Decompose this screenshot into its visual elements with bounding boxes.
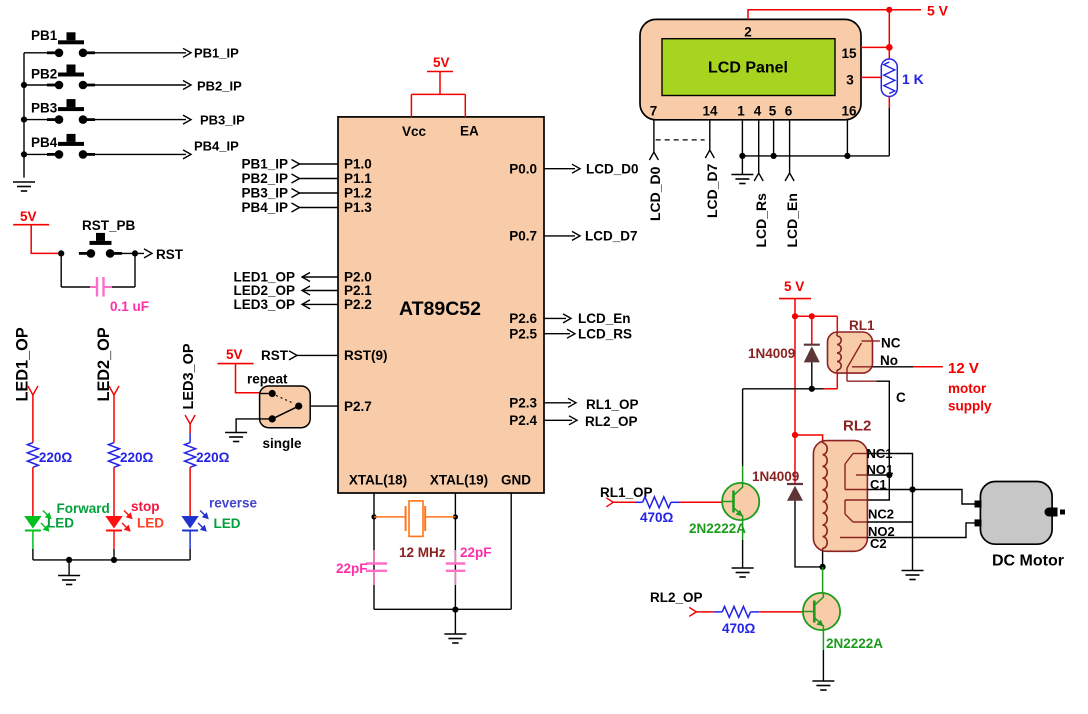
wire resistor to LED2 xyxy=(113,467,115,516)
connector arrow LED3_OP xyxy=(185,415,195,424)
wire pin3 to pot xyxy=(861,76,881,78)
svg-text:repeat: repeat xyxy=(247,372,288,387)
capacitor C_RST 0.1uF xyxy=(60,253,62,287)
node PB1_IP (top-left) xyxy=(183,48,191,57)
svg-text:LCD_RS: LCD_RS xyxy=(578,327,632,342)
wire to RST node xyxy=(132,250,138,256)
resistor R1 220 xyxy=(27,443,38,468)
svg-text:C2: C2 xyxy=(870,536,887,551)
capacitor C2 22pF xyxy=(446,562,466,564)
wire LED common xyxy=(33,559,190,561)
svg-text:5 V: 5 V xyxy=(784,279,804,294)
svg-text:P2.5: P2.5 xyxy=(509,326,537,341)
push button RST_PB xyxy=(58,250,64,256)
wire 5V rail to pin15 and 1K xyxy=(888,10,890,60)
svg-text:P2.7: P2.7 xyxy=(344,399,372,414)
wire pot bottom to gnd bus xyxy=(888,97,890,109)
node RST xyxy=(144,249,152,258)
node PB4_IP (top-left) xyxy=(183,150,191,159)
svg-text:P0.7: P0.7 xyxy=(509,229,537,244)
node PB3_IP (top-left) xyxy=(183,115,191,124)
svg-text:LCD_D7: LCD_D7 xyxy=(585,229,638,244)
wire resistor to LED3 xyxy=(189,467,191,516)
ground - LEDs xyxy=(68,560,70,576)
svg-text:PB1_IP: PB1_IP xyxy=(194,46,239,61)
wire NC2 xyxy=(867,521,912,523)
connector arrow LED2_OP xyxy=(109,386,119,395)
svg-text:2N2222A: 2N2222A xyxy=(689,521,746,536)
svg-text:5: 5 xyxy=(769,104,777,119)
wire P0.0 to LCD_D0 xyxy=(544,168,575,170)
svg-text:LED2_OP: LED2_OP xyxy=(95,327,113,401)
svg-text:Forward: Forward xyxy=(57,501,110,516)
wire LCD pin1 to ground xyxy=(741,120,743,156)
wire NO2 to motor xyxy=(867,523,978,538)
connector arrow LED1_OP xyxy=(28,386,38,395)
capacitor C1 22pF xyxy=(366,562,387,564)
svg-text:2N2222A: 2N2222A xyxy=(826,636,883,651)
relay RL1 xyxy=(828,332,873,373)
svg-text:5V: 5V xyxy=(226,347,243,362)
ground - Q2 xyxy=(812,680,834,682)
svg-text:Vcc: Vcc xyxy=(402,124,427,139)
svg-text:P1.3: P1.3 xyxy=(344,200,372,215)
svg-text:P0.0: P0.0 xyxy=(509,161,537,176)
svg-text:2: 2 xyxy=(744,25,752,40)
wire crystal ground bus xyxy=(374,608,511,610)
resistor R3 220 xyxy=(185,443,196,468)
svg-text:1N4009: 1N4009 xyxy=(748,346,795,361)
wire RL1 coil bottom xyxy=(836,373,838,389)
svg-text:P1.1: P1.1 xyxy=(344,171,372,186)
wire LCD pin4 xyxy=(758,120,760,173)
svg-text:P2.6: P2.6 xyxy=(509,311,537,326)
resistor R5 470 (Q2 base) xyxy=(696,611,714,613)
wire LCD pin6 xyxy=(789,120,791,173)
svg-text:22pF: 22pF xyxy=(336,561,368,576)
svg-text:PB2_IP: PB2_IP xyxy=(197,79,242,94)
svg-text:LCD_D7: LCD_D7 xyxy=(704,163,720,218)
wire Q2 emitter to ground xyxy=(822,650,824,681)
svg-text:P1.0: P1.0 xyxy=(344,157,372,172)
svg-text:EA: EA xyxy=(460,124,479,139)
wire P2.6 to LCD_En xyxy=(544,317,566,319)
wire GND pin xyxy=(510,493,512,609)
wire P2.3 to RL1_OP xyxy=(544,402,571,404)
svg-text:1 K: 1 K xyxy=(902,71,924,87)
svg-text:C: C xyxy=(896,390,906,405)
svg-text:RST: RST xyxy=(261,348,289,363)
svg-text:reverse: reverse xyxy=(209,496,258,511)
transistor Q1 2N2222A xyxy=(722,483,759,520)
svg-text:12 MHz: 12 MHz xyxy=(399,545,446,560)
svg-text:LCD_En: LCD_En xyxy=(578,311,631,326)
RL1 contacts xyxy=(862,340,873,342)
svg-text:LCD_D0: LCD_D0 xyxy=(586,162,639,177)
wire LCD pin16 xyxy=(846,120,848,156)
ground - push buttons xyxy=(13,181,35,183)
push button PB2 xyxy=(24,84,47,86)
svg-text:RL2_OP: RL2_OP xyxy=(650,590,703,605)
svg-text:RST(9): RST(9) xyxy=(344,348,388,363)
svg-text:LED: LED xyxy=(214,516,241,531)
svg-text:LED: LED xyxy=(137,516,164,531)
wire PB4 output xyxy=(95,153,186,155)
svg-text:DC Motor: DC Motor xyxy=(992,553,1064,570)
transistor Q2 2N2222A xyxy=(803,593,840,630)
wire switch to P2.7 xyxy=(310,405,338,407)
svg-text:1: 1 xyxy=(737,104,745,119)
ground - mode switch xyxy=(236,419,272,433)
wire Q1 emitter to ground xyxy=(742,540,744,568)
wire LED2 top xyxy=(113,395,115,443)
wire LED1 bottom xyxy=(32,549,34,560)
LED D1 xyxy=(24,516,41,529)
wire NO1 to RL1 common xyxy=(867,474,889,476)
svg-text:12 V: 12 V xyxy=(948,360,979,377)
svg-text:15: 15 xyxy=(841,46,857,61)
potentiometer 1K xyxy=(881,59,897,97)
svg-text:LED2_OP: LED2_OP xyxy=(233,283,295,298)
svg-text:PB3_IP: PB3_IP xyxy=(200,113,245,128)
svg-text:14: 14 xyxy=(702,104,718,119)
wire 5V to RL1 coil xyxy=(795,315,837,317)
svg-text:LED3_OP: LED3_OP xyxy=(181,343,197,409)
IC U1 AT89C52 xyxy=(338,117,544,493)
wire P2.4 to RL2_OP xyxy=(544,419,572,421)
svg-text:470Ω: 470Ω xyxy=(722,621,756,636)
ground - relay contacts xyxy=(902,570,924,572)
svg-text:1N4009: 1N4009 xyxy=(752,469,799,484)
wire RL2 coil bottom to Q2 xyxy=(822,551,824,567)
svg-text:4: 4 xyxy=(754,104,762,119)
svg-text:GND: GND xyxy=(501,473,531,488)
svg-text:PB4: PB4 xyxy=(31,135,58,150)
switch S1 repeat/single xyxy=(260,386,311,428)
wire LCD pin7 xyxy=(653,120,655,152)
svg-text:LED: LED xyxy=(47,516,74,531)
wire LCD pin14 xyxy=(709,120,711,150)
svg-text:stop: stop xyxy=(131,499,160,514)
svg-text:PB4_IP: PB4_IP xyxy=(241,200,288,215)
svg-text:RL1: RL1 xyxy=(849,318,875,333)
resistor R4 470 (Q1 base) xyxy=(613,501,635,503)
svg-text:NC2: NC2 xyxy=(868,507,894,522)
svg-text:supply: supply xyxy=(948,399,992,414)
svg-text:P1.2: P1.2 xyxy=(344,186,372,201)
svg-text:RST: RST xyxy=(156,247,184,262)
svg-text:16: 16 xyxy=(841,104,857,119)
svg-text:LED1_OP: LED1_OP xyxy=(14,327,32,401)
svg-text:LED3_OP: LED3_OP xyxy=(233,297,295,312)
svg-text:PB3: PB3 xyxy=(31,101,58,116)
svg-text:PB1_IP: PB1_IP xyxy=(241,157,288,172)
wire Q1 collector xyxy=(742,389,744,466)
wire LCD pin5 xyxy=(773,120,775,156)
wire resistor to LED1 xyxy=(32,467,34,516)
diode D2 1N4009 xyxy=(794,435,796,484)
crystal X1 12MHz xyxy=(371,514,376,519)
svg-text:470Ω: 470Ω xyxy=(640,510,674,525)
relay RL2 xyxy=(813,441,867,552)
svg-text:0.1 uF: 0.1 uF xyxy=(110,299,149,314)
svg-text:XTAL(18): XTAL(18) xyxy=(349,473,407,488)
LED D3 xyxy=(181,516,198,529)
svg-text:220Ω: 220Ω xyxy=(120,450,154,465)
svg-text:7: 7 xyxy=(650,104,658,119)
wire P2.5 to LCD_RS xyxy=(544,333,570,335)
LED D2 xyxy=(105,516,122,529)
svg-text:P2.4: P2.4 xyxy=(509,413,537,428)
wire RL1 common C xyxy=(847,380,876,382)
wire PB1 output xyxy=(95,52,186,54)
ground - LCD pin1 xyxy=(731,174,753,176)
svg-text:PB4_IP: PB4_IP xyxy=(194,139,239,154)
svg-text:RL1_OP: RL1_OP xyxy=(586,397,639,412)
svg-text:P2.3: P2.3 xyxy=(509,396,537,411)
svg-text:PB3_IP: PB3_IP xyxy=(241,186,288,201)
wire NC1 to ground xyxy=(867,454,912,571)
svg-text:RST_PB: RST_PB xyxy=(82,218,136,233)
svg-text:220Ω: 220Ω xyxy=(39,450,73,465)
wire P0.7 to LCD_D7 xyxy=(544,235,575,237)
svg-text:NC: NC xyxy=(881,336,901,351)
svg-text:AT89C52: AT89C52 xyxy=(399,298,481,320)
push button PB4 xyxy=(24,153,47,155)
svg-text:PB1: PB1 xyxy=(31,28,58,43)
LCD ground bus xyxy=(742,155,889,157)
svg-text:LCD_Rs: LCD_Rs xyxy=(753,193,769,248)
LCD panel module xyxy=(640,19,861,119)
push button PB3 xyxy=(24,119,47,121)
node PB2_IP (top-left) xyxy=(183,81,191,90)
dashed wire pin7-pin14 xyxy=(656,139,705,141)
svg-text:LCD_En: LCD_En xyxy=(784,193,800,247)
svg-text:RL2_OP: RL2_OP xyxy=(585,414,638,429)
ground - crystal xyxy=(454,610,456,634)
svg-text:22pF: 22pF xyxy=(460,545,492,560)
wire LED2 bottom xyxy=(113,549,115,560)
svg-text:5V: 5V xyxy=(20,209,37,224)
svg-text:3: 3 xyxy=(846,73,854,88)
svg-text:5V: 5V xyxy=(433,55,450,70)
push button PB1 xyxy=(24,52,47,54)
svg-text:220Ω: 220Ω xyxy=(196,450,230,465)
svg-text:LCD Panel: LCD Panel xyxy=(708,60,788,77)
wire XTAL19 xyxy=(454,493,456,609)
svg-text:6: 6 xyxy=(785,104,793,119)
svg-text:XTAL(19): XTAL(19) xyxy=(430,473,488,488)
wire LED3 bottom xyxy=(189,549,191,560)
svg-text:P2.2: P2.2 xyxy=(344,297,372,312)
svg-text:RL2: RL2 xyxy=(843,418,871,435)
wire C1 to motor xyxy=(867,490,978,505)
svg-text:No: No xyxy=(880,353,898,368)
svg-text:P2.1: P2.1 xyxy=(344,283,372,298)
wire XTAL18 xyxy=(373,493,375,609)
svg-text:PB2: PB2 xyxy=(31,67,57,82)
svg-text:single: single xyxy=(263,436,303,451)
svg-text:motor: motor xyxy=(948,381,987,396)
svg-text:PB2_IP: PB2_IP xyxy=(241,171,288,186)
RL2 lower contact set xyxy=(845,499,867,501)
RL1 NC terminal xyxy=(873,340,880,342)
wire PB2 output xyxy=(95,84,186,86)
ground - Q1 xyxy=(732,567,754,569)
resistor R2 220 xyxy=(109,443,120,468)
svg-text:LCD_D0: LCD_D0 xyxy=(647,166,663,221)
wire LED1 top xyxy=(32,395,34,443)
svg-text:5 V: 5 V xyxy=(927,3,949,19)
junction dots on rail xyxy=(21,82,27,88)
wire 5V to RL2 coil xyxy=(792,432,798,438)
DC motor M1 xyxy=(980,482,1052,545)
wire PB3 output xyxy=(95,119,186,121)
RL2 upper contact set xyxy=(853,453,867,455)
wire LED3 top xyxy=(189,424,191,433)
diode D1 1N4009 xyxy=(811,316,813,344)
wire - push button supply rail xyxy=(23,53,25,178)
power 5V - LCD xyxy=(748,10,921,20)
